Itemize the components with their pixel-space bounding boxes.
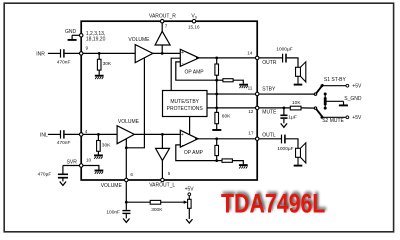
wire C4 to ground bbox=[125, 214, 127, 218]
svg-text:+5V: +5V bbox=[185, 186, 195, 192]
svg-text:5: 5 bbox=[168, 171, 171, 176]
junction node volume control bbox=[125, 146, 128, 149]
svg-text:OUTR: OUTR bbox=[262, 60, 277, 66]
svg-text:OP AMP: OP AMP bbox=[185, 69, 205, 75]
junction node STBY column bbox=[215, 93, 218, 96]
wire volume amp L out to op-amp L bbox=[134, 133, 180, 135]
capacitor C6 1000uF plates bbox=[283, 54, 286, 63]
svg-text:1000µF: 1000µF bbox=[276, 46, 292, 52]
volume control riser from volume amp R bbox=[126, 58, 144, 148]
svg-text:9: 9 bbox=[86, 46, 89, 51]
op-amp R triangle bbox=[180, 49, 199, 66]
pin 14 OUTR bbox=[255, 56, 259, 60]
svg-text:VAROUT_L: VAROUT_L bbox=[149, 183, 175, 189]
pin 4 INL bbox=[79, 133, 83, 137]
junction node op-amp L output bbox=[215, 137, 218, 140]
wire OUTR pin14 to C6 bbox=[257, 57, 282, 59]
wire op-amp R out to pin 14 bbox=[196, 57, 257, 59]
ground hatched below R1 bbox=[95, 76, 104, 79]
svg-text:S_GND: S_GND bbox=[344, 96, 362, 102]
speaker LS2 bbox=[294, 143, 306, 166]
junction node op-amp R output bbox=[215, 57, 218, 60]
svg-text:18,19,20: 18,19,20 bbox=[86, 36, 106, 42]
wire protections ctrl to op-amp R bbox=[171, 58, 180, 90]
wire pin 6 down to volume rail bbox=[125, 180, 127, 202]
feedback loop R to inverting input bbox=[176, 62, 217, 80]
potentiometer +5V stem bbox=[188, 196, 190, 200]
capacitor C4 100nF plates bbox=[122, 211, 130, 214]
resistor R5 60K body bbox=[215, 112, 219, 123]
wire buffer base to node bbox=[161, 45, 163, 53]
ground hatched below R2 bbox=[94, 155, 103, 158]
wire protections ctrl to op-amp L bbox=[189, 117, 191, 135]
wire protections to pin 11 STBY bbox=[207, 93, 316, 95]
svg-text:INR: INR bbox=[36, 52, 45, 58]
ground bar S_GND bbox=[339, 104, 348, 106]
terminal +5V S1 bbox=[346, 84, 349, 87]
svg-text:+: + bbox=[181, 132, 184, 138]
wire volume rail to 300K bbox=[126, 201, 150, 203]
buffer VAROUT_R stub to pin 7 bbox=[161, 21, 163, 31]
buffer VAROUT_R triangle bbox=[155, 31, 170, 45]
ground hatched feedback R bbox=[239, 85, 248, 88]
wire OUTL pin17 to C7 bbox=[257, 138, 281, 140]
ground bar below 60K bbox=[212, 129, 221, 131]
wire C5 to ground bbox=[283, 119, 285, 123]
svg-text:INL: INL bbox=[40, 133, 48, 139]
ground hatched feedback L bbox=[239, 165, 248, 168]
svg-text:-: - bbox=[182, 60, 184, 66]
svg-text:-: - bbox=[182, 142, 184, 148]
svg-text:300K: 300K bbox=[151, 207, 163, 213]
capacitor C7 1000uF plates bbox=[282, 135, 285, 144]
resistor R1 30K body bbox=[97, 59, 101, 70]
svg-text:30K: 30K bbox=[103, 61, 112, 67]
resistor R2 30K stem bbox=[97, 134, 99, 140]
volume amp R triangle bbox=[135, 45, 153, 63]
capacitor C3 470uF plates bbox=[58, 174, 68, 177]
wire pin 4 to volume amp L bbox=[81, 133, 117, 135]
junction node buffer R tap bbox=[161, 52, 164, 55]
pin 15,16 Vs bbox=[192, 19, 196, 23]
switch S2 +5V line bbox=[322, 116, 346, 118]
switch S2 lever bbox=[316, 108, 324, 118]
junction node volume rail bbox=[125, 201, 128, 204]
junction node 30K L bbox=[97, 133, 100, 136]
wire potentiometer to ground bbox=[188, 208, 190, 219]
MUTE/STBY protections box bbox=[163, 91, 208, 117]
svg-text:+: + bbox=[181, 50, 184, 56]
svg-text:+5V: +5V bbox=[352, 83, 362, 89]
wire INL input bbox=[48, 133, 60, 135]
speaker LS1 bbox=[294, 62, 306, 85]
resistor R4 10K body bbox=[290, 106, 301, 110]
ground arrow below potentiometer bbox=[186, 219, 192, 223]
capacitor C1 470nF plates bbox=[61, 49, 64, 57]
switch S1 +5V line bbox=[322, 85, 346, 87]
wire C6 to speaker R bbox=[287, 58, 298, 67]
wire volume amp out to op-amp bbox=[153, 52, 181, 54]
resistor R3 300K body bbox=[150, 200, 161, 204]
pin 17 OUTL bbox=[255, 137, 259, 141]
junction node S2 +5V bbox=[321, 116, 324, 119]
wire SVR pin 10 to C3 bbox=[63, 165, 81, 167]
svg-text:11: 11 bbox=[248, 85, 253, 90]
svg-text:1µF: 1µF bbox=[288, 115, 296, 121]
feedback loop L to inverting input bbox=[176, 145, 217, 161]
wire 10K to switch S2 bbox=[301, 107, 316, 109]
pin 5 VAROUT_L bbox=[161, 178, 165, 182]
svg-text:VOLUME: VOLUME bbox=[101, 183, 123, 189]
svg-text:15,16: 15,16 bbox=[188, 24, 200, 29]
svg-text:10K: 10K bbox=[292, 100, 301, 106]
junction node S1 +5V bbox=[321, 84, 324, 87]
feedback resistor L horizontal body bbox=[222, 159, 232, 162]
junction node buffer L tap bbox=[161, 133, 164, 136]
IC U1 TDA7496L body bbox=[81, 21, 257, 180]
wire to ground right of feedback L bbox=[233, 161, 244, 165]
wire buffer VAROUT_L to pin 5 bbox=[161, 161, 163, 180]
ground hatched pin 10 bbox=[95, 171, 104, 174]
wire fb L vertical lower stem bbox=[216, 156, 218, 161]
ground arrow below C3 bbox=[60, 182, 66, 186]
wire R2 to ground bbox=[97, 151, 99, 154]
svg-text:60K: 60K bbox=[222, 114, 231, 120]
wire feedback column bbox=[216, 75, 218, 112]
junction node MUTE column bbox=[215, 107, 218, 110]
terminal +5V S2 bbox=[346, 116, 349, 119]
feedback resistor L horizontal stem bbox=[217, 160, 222, 162]
pin 11 STBY bbox=[255, 92, 259, 96]
svg-text:MUTE/STBY: MUTE/STBY bbox=[170, 99, 199, 105]
wire to ground right of feedback R bbox=[233, 80, 243, 84]
svg-text:TDA7496L: TDA7496L bbox=[221, 189, 325, 219]
svg-text:470nF: 470nF bbox=[57, 140, 71, 146]
switch common contacts S_GND column bbox=[325, 95, 343, 106]
feedback resistor R horizontal body bbox=[223, 79, 233, 82]
volume amp L triangle bbox=[117, 126, 134, 144]
svg-text:1000µF: 1000µF bbox=[277, 146, 293, 152]
junction node 1uF bbox=[283, 107, 286, 110]
wire C2 to pin 4 bbox=[65, 133, 81, 135]
wire C7 to speaker L bbox=[286, 139, 298, 149]
svg-text:OP AMP: OP AMP bbox=[184, 150, 204, 156]
contact S_GND upper bbox=[324, 93, 327, 96]
svg-text:7: 7 bbox=[165, 24, 168, 29]
svg-text:S2 MUTE: S2 MUTE bbox=[322, 118, 344, 124]
capacitor C5 1uF stem bbox=[283, 108, 285, 115]
junction node S1 pole bbox=[314, 93, 316, 95]
svg-text:470µF: 470µF bbox=[38, 172, 52, 178]
capacitor C2 470nF plates bbox=[61, 130, 64, 138]
junction node feedback R bbox=[215, 79, 218, 82]
wire op-amp L out to pin 17 bbox=[195, 138, 257, 140]
feedback resistor L vertical body bbox=[215, 145, 219, 155]
svg-text:4: 4 bbox=[85, 129, 88, 134]
svg-text:VOLUME: VOLUME bbox=[118, 119, 140, 125]
ground arrow below C4 bbox=[123, 219, 129, 223]
volume control riser to pin 6 bbox=[125, 139, 127, 180]
svg-text:100nF: 100nF bbox=[106, 210, 120, 216]
svg-text:STBY: STBY bbox=[262, 87, 276, 93]
svg-text:MUTE: MUTE bbox=[262, 110, 277, 116]
resistor R1 30K stem bbox=[98, 53, 100, 59]
capacitor C5 1uF plates bbox=[280, 115, 287, 118]
svg-text:S1 ST-BY: S1 ST-BY bbox=[324, 77, 347, 83]
buffer VAROUT_L triangle bbox=[156, 148, 170, 160]
op-amp L triangle bbox=[180, 130, 198, 147]
wire C3 to ground bbox=[62, 179, 64, 182]
svg-text:VAROUT_R: VAROUT_R bbox=[149, 13, 176, 19]
wire 300K to potentiometer wiper bbox=[161, 201, 185, 203]
feedback resistor L vertical stem bbox=[216, 139, 218, 146]
potentiometer body bbox=[188, 199, 192, 208]
wire node to buffer VAROUT_L bbox=[161, 134, 163, 148]
junction node 30K R bbox=[98, 52, 101, 55]
svg-text:17: 17 bbox=[248, 131, 254, 136]
svg-text:30K: 30K bbox=[102, 143, 111, 149]
svg-text:S: S bbox=[195, 16, 198, 20]
feedback resistor R horizontal stem bbox=[217, 79, 223, 81]
resistor R2 30K body bbox=[97, 141, 101, 152]
junction node S2 pole bbox=[314, 107, 316, 109]
wire protections to pin 12 MUTE bbox=[207, 107, 290, 109]
svg-text:PROTECTIONS: PROTECTIONS bbox=[167, 106, 204, 112]
wire R1 to ground bbox=[98, 70, 100, 75]
svg-text:12: 12 bbox=[248, 109, 254, 114]
pin 10 SVR bbox=[79, 164, 83, 168]
svg-text:TDA7496L: TDA7496L bbox=[244, 199, 290, 208]
svg-text:GND: GND bbox=[65, 29, 77, 35]
svg-text:6: 6 bbox=[130, 172, 133, 177]
pin 6 VOLUME bbox=[125, 178, 129, 182]
junction node feedback L bbox=[215, 159, 218, 162]
svg-text:SVR: SVR bbox=[67, 159, 78, 165]
wire pin 10 to internal ground bbox=[81, 166, 99, 170]
wire pin 9 to volume amp bbox=[81, 52, 135, 54]
pin 12 MUTE bbox=[255, 106, 259, 110]
wire 60K to ground bbox=[216, 124, 218, 129]
potentiometer wiper arrowhead bbox=[184, 201, 188, 204]
feedback resistor R vertical body bbox=[215, 64, 219, 75]
contact S_GND lower bbox=[324, 107, 327, 110]
pin 9 INR bbox=[79, 52, 83, 56]
svg-text:+5V: +5V bbox=[352, 115, 362, 121]
capacitor C3 470uF stem bbox=[62, 166, 64, 174]
wire C1 to pin 9 bbox=[65, 52, 81, 54]
svg-text:10: 10 bbox=[86, 158, 92, 163]
pin GND 1,2,3,13,18,19,20 bbox=[79, 34, 83, 38]
capacitor C4 100nF stem bbox=[125, 202, 127, 210]
svg-text:14: 14 bbox=[247, 51, 253, 56]
terminal +5V potentiometer bbox=[188, 193, 191, 196]
ground arrow below C5 bbox=[281, 123, 287, 127]
feedback resistor R vertical stems bbox=[216, 58, 218, 64]
svg-text:OUTL: OUTL bbox=[262, 132, 276, 138]
svg-text:470nF: 470nF bbox=[57, 59, 71, 65]
switch S1 lever bbox=[316, 84, 324, 94]
pin 7 VAROUT_R bbox=[160, 19, 164, 23]
svg-text:VOLUME: VOLUME bbox=[128, 37, 150, 43]
wire INR input bbox=[48, 52, 60, 54]
ground symbol GND pin bbox=[68, 35, 81, 40]
